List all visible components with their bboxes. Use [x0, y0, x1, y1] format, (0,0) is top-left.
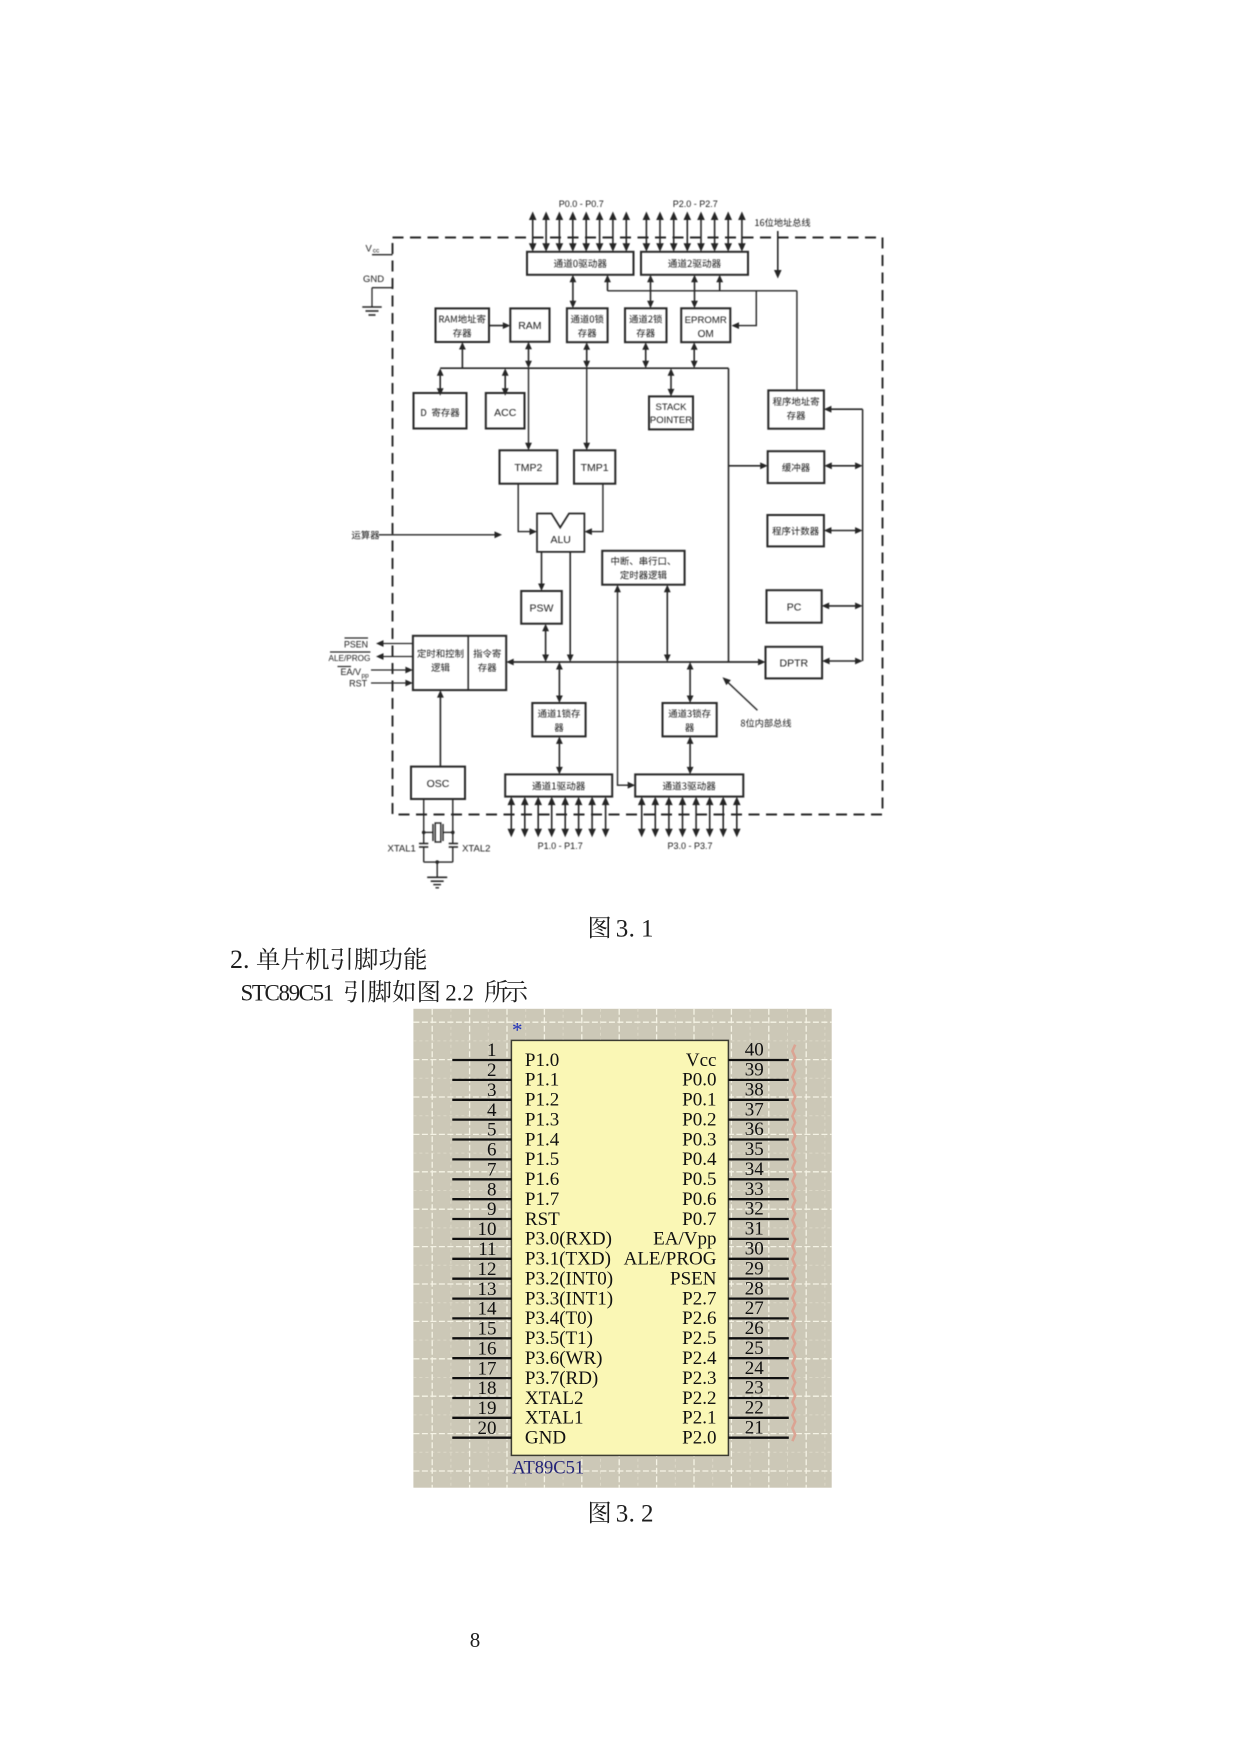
svg-text:24: 24 — [745, 1358, 765, 1379]
svg-text:P1.0 - P1.7: P1.0 - P1.7 — [538, 841, 583, 851]
svg-text:10: 10 — [478, 1219, 497, 1240]
svg-text:17: 17 — [478, 1358, 497, 1379]
svg-text:P1.0: P1.0 — [525, 1050, 559, 1071]
svg-text:P3.4(T0): P3.4(T0) — [525, 1308, 593, 1329]
svg-text:P1.7: P1.7 — [525, 1189, 559, 1210]
svg-text:ACC: ACC — [494, 407, 517, 419]
svg-text:37: 37 — [745, 1099, 764, 1120]
svg-text:P2.2: P2.2 — [682, 1388, 716, 1409]
svg-text:P1.1: P1.1 — [525, 1070, 559, 1091]
svg-text:XTAL2: XTAL2 — [462, 844, 490, 855]
svg-text:19: 19 — [478, 1398, 497, 1419]
svg-text:39: 39 — [745, 1060, 764, 1081]
svg-text:*: * — [512, 1018, 523, 1042]
svg-text:POINTER: POINTER — [650, 415, 692, 426]
svg-text:30: 30 — [745, 1239, 764, 1260]
svg-text:15: 15 — [478, 1319, 497, 1340]
svg-text:38: 38 — [745, 1080, 764, 1101]
svg-text:DPTR: DPTR — [780, 658, 809, 670]
svg-text:35: 35 — [745, 1139, 764, 1160]
svg-text:PC: PC — [787, 602, 802, 614]
svg-text:P0.3: P0.3 — [682, 1129, 716, 1150]
svg-text:18: 18 — [478, 1378, 497, 1399]
svg-text:4: 4 — [487, 1100, 497, 1121]
svg-text:6: 6 — [487, 1140, 497, 1161]
svg-text:8: 8 — [487, 1179, 497, 1200]
svg-text:40: 40 — [745, 1040, 764, 1061]
svg-text:RST: RST — [525, 1209, 560, 1230]
svg-text:2: 2 — [641, 1501, 654, 1528]
svg-text:1: 1 — [641, 916, 654, 943]
svg-text:P2.0 - P2.7: P2.0 - P2.7 — [673, 199, 718, 209]
svg-text:22: 22 — [745, 1398, 764, 1419]
svg-text:.: . — [629, 916, 635, 943]
svg-text:AT89C51: AT89C51 — [512, 1458, 584, 1478]
svg-text:11: 11 — [478, 1239, 496, 1260]
svg-text:OM: OM — [698, 329, 714, 340]
svg-text:8: 8 — [470, 1628, 481, 1652]
svg-text:7: 7 — [487, 1160, 497, 1181]
svg-text:20: 20 — [478, 1418, 497, 1439]
svg-text:29: 29 — [745, 1258, 764, 1279]
svg-text:P3.1(TXD): P3.1(TXD) — [525, 1249, 611, 1270]
svg-text:13: 13 — [478, 1279, 497, 1300]
svg-text:P3.5(T1): P3.5(T1) — [525, 1328, 593, 1349]
svg-text:P3.3(INT1): P3.3(INT1) — [525, 1288, 613, 1309]
svg-text:P1.5: P1.5 — [525, 1149, 559, 1170]
svg-text:P2.6: P2.6 — [682, 1308, 716, 1329]
svg-text:34: 34 — [745, 1159, 765, 1180]
svg-text:1: 1 — [487, 1040, 497, 1061]
svg-text:P2.3: P2.3 — [682, 1368, 716, 1389]
svg-text:P1.4: P1.4 — [525, 1129, 560, 1150]
svg-text:GND: GND — [525, 1428, 566, 1449]
svg-text:P0.2: P0.2 — [682, 1109, 716, 1130]
svg-text:25: 25 — [745, 1338, 764, 1359]
svg-text:36: 36 — [745, 1119, 764, 1140]
svg-text:28: 28 — [745, 1278, 764, 1299]
svg-text:26: 26 — [745, 1318, 764, 1339]
svg-text:3: 3 — [616, 916, 629, 943]
svg-text:PSEN: PSEN — [670, 1269, 717, 1290]
svg-text:3: 3 — [616, 1501, 629, 1528]
svg-text:Vcc: Vcc — [686, 1050, 717, 1071]
svg-text:9: 9 — [487, 1199, 497, 1220]
svg-text:ALU: ALU — [550, 534, 570, 546]
svg-text:P1.2: P1.2 — [525, 1090, 559, 1111]
svg-text:33: 33 — [745, 1179, 764, 1200]
svg-text:5: 5 — [487, 1120, 497, 1141]
svg-text:P0.0: P0.0 — [682, 1070, 716, 1091]
svg-text:P3.0 - P3.7: P3.0 - P3.7 — [667, 841, 712, 851]
svg-text:23: 23 — [745, 1378, 764, 1399]
svg-text:3: 3 — [487, 1080, 497, 1101]
svg-text:P2.0: P2.0 — [682, 1428, 716, 1449]
svg-text:GND: GND — [363, 274, 384, 285]
svg-text:.: . — [629, 1501, 635, 1528]
svg-text:cc: cc — [373, 247, 380, 254]
svg-text:PSW: PSW — [530, 603, 554, 615]
svg-text:OSC: OSC — [427, 778, 450, 790]
svg-text:STC89C51: STC89C51 — [241, 981, 334, 1006]
svg-text:P2.5: P2.5 — [682, 1328, 716, 1349]
svg-text:P1.6: P1.6 — [525, 1169, 559, 1190]
svg-text:P3.2(INT0): P3.2(INT0) — [525, 1269, 613, 1290]
svg-text:P0.0 - P0.7: P0.0 - P0.7 — [559, 199, 604, 209]
svg-text:EA/Vpp: EA/Vpp — [653, 1229, 716, 1250]
svg-text:2.2: 2.2 — [445, 981, 474, 1006]
svg-text:P2.7: P2.7 — [682, 1288, 716, 1309]
svg-text:12: 12 — [478, 1259, 497, 1280]
svg-text:P0.4: P0.4 — [682, 1149, 717, 1170]
svg-text:TMP2: TMP2 — [514, 462, 542, 474]
svg-text:EA/V: EA/V — [340, 667, 361, 677]
svg-text:32: 32 — [745, 1199, 764, 1220]
svg-text:2: 2 — [487, 1060, 497, 1081]
svg-text:XTAL2: XTAL2 — [525, 1388, 584, 1409]
svg-text:PSEN: PSEN — [344, 640, 368, 650]
svg-text:EPROMR: EPROMR — [685, 315, 727, 326]
svg-text:14: 14 — [478, 1299, 498, 1320]
svg-text:STACK: STACK — [656, 402, 688, 413]
svg-text:V: V — [366, 244, 373, 255]
svg-text:31: 31 — [745, 1219, 764, 1240]
svg-text:RST: RST — [349, 679, 368, 689]
svg-text:ALE/PROG: ALE/PROG — [329, 654, 371, 663]
svg-text:RAM: RAM — [518, 320, 541, 332]
svg-text:XTAL1: XTAL1 — [388, 844, 416, 855]
svg-text:P2.1: P2.1 — [682, 1408, 716, 1429]
svg-text:P0.7: P0.7 — [682, 1209, 716, 1230]
svg-text:P0.5: P0.5 — [682, 1169, 716, 1190]
svg-text:XTAL1: XTAL1 — [525, 1408, 584, 1429]
svg-text:2.: 2. — [230, 945, 250, 974]
svg-text:21: 21 — [745, 1417, 764, 1438]
svg-text:TMP1: TMP1 — [581, 462, 609, 474]
svg-text:P3.0(RXD): P3.0(RXD) — [525, 1229, 612, 1250]
svg-text:P3.7(RD): P3.7(RD) — [525, 1368, 598, 1389]
svg-text:ALE/PROG: ALE/PROG — [624, 1249, 717, 1270]
svg-text:P0.6: P0.6 — [682, 1189, 716, 1210]
svg-text:P3.6(WR): P3.6(WR) — [525, 1348, 603, 1369]
svg-text:P1.3: P1.3 — [525, 1109, 559, 1130]
svg-text:P2.4: P2.4 — [682, 1348, 717, 1369]
svg-text:16: 16 — [478, 1338, 497, 1359]
svg-text:27: 27 — [745, 1298, 764, 1319]
svg-text:P0.1: P0.1 — [682, 1090, 716, 1111]
